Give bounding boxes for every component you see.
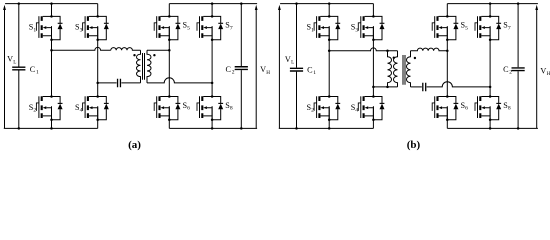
wire leg 2 upper (a) [97,4,99,17]
label S2b [307,103,315,114]
polarity dot secondary (b) [414,57,416,59]
label S3a [75,23,83,34]
label S3b [351,23,359,34]
node leg 4 rail junctions (b) [489,2,492,129]
inductor L series secondary (b) [411,48,448,51]
svg-text:4: 4 [355,108,358,114]
label S6a [183,101,191,112]
wire leg 1 lower (b) [328,106,330,128]
svg-text:(b): (b) [407,139,421,151]
wire lower primary right (a) [121,82,140,84]
label C2 (a) [226,65,235,76]
body diode of S6a [169,97,180,120]
transformer T core (a) [143,53,145,80]
svg-text:6: 6 [187,106,190,112]
capacitor C_s series (b) [423,83,426,92]
wire bottom rail left bridge (a) [4,127,98,129]
wire top rail left bridge (a) [5,3,98,5]
capacitor C1 (b) [290,2,303,129]
node leg 1 rail junctions (a) [50,2,53,129]
wire leg 2 lower (b) [372,106,374,128]
svg-text:V: V [7,55,13,64]
wire leg 1 middle (a) [50,26,53,96]
body diode of S5b [447,16,458,39]
svg-text:1: 1 [33,27,36,33]
wire lower primary (b) [373,86,397,88]
wire leg 2 middle (b) [372,26,375,96]
transistor S4b (MOSFET) [358,95,374,121]
label V_H (b) [540,66,550,77]
svg-text:C: C [226,65,232,74]
label V_L (a) [7,55,16,66]
transformer T primary winding (a) [136,50,140,83]
transistor S4a (MOSFET) [83,95,99,121]
polarity dot primary (a) [133,54,135,56]
svg-text:5: 5 [465,25,468,31]
label S8b [503,101,511,112]
svg-text:2: 2 [33,108,36,114]
body diode of S7b [490,16,501,39]
caption (a) [128,139,141,151]
svg-text:2: 2 [311,108,314,114]
wire leg 2 upper (b) [372,4,374,17]
wire secondary bottom left (b) [411,86,422,88]
transistor S1b (MOSFET) [314,15,330,41]
capacitor C2 (b) [512,2,525,129]
label S7a [225,21,233,32]
capacitor C_s series (a) [118,79,121,88]
transistor S5a (MOSFET) [154,15,170,41]
voltage arrow V_H (b) [535,5,538,129]
wire leg 3 lower (b) [446,106,448,128]
transistor S6a (MOSFET) [154,95,170,121]
wire leg 2 lower (a) [97,106,99,128]
svg-text:C: C [30,65,36,74]
svg-text:V: V [540,66,546,75]
transistor S6b (MOSFET) [432,95,448,121]
wire secondary top (a) [147,49,169,51]
svg-text:L: L [13,59,16,65]
svg-text:V: V [260,65,266,74]
wire leg 3 upper (b) [446,4,448,17]
label S8a [225,101,233,112]
wire leg 4 upper (a) [211,4,213,17]
svg-text:6: 6 [465,106,468,112]
svg-text:1: 1 [311,27,314,33]
transistor S5b (MOSFET) [432,15,448,41]
wire leg 1 upper (a) [51,4,53,17]
wire leg 1 lower (a) [51,106,53,128]
label C1 (b) [307,65,316,76]
label V_H (a) [260,65,270,76]
caption (b) [407,139,421,151]
svg-text:(a): (a) [128,139,141,151]
body diode of S4a [98,97,109,120]
transformer T secondary winding (b) [407,51,411,87]
capacitor C2 (a) [235,2,248,129]
wire leg 4 upper (b) [489,4,491,17]
transistor S3b (MOSFET) [358,15,374,41]
svg-text:L: L [291,60,294,66]
svg-text:5: 5 [187,25,190,31]
transistor S2a (MOSFET) [36,95,52,121]
label S1a [29,23,37,34]
body diode of S8a [212,97,223,120]
inductor L (a) [111,48,141,51]
label S6b [461,101,469,112]
wire leg 4 lower (b) [489,106,491,128]
label S7b [503,21,511,32]
body diode of S1b [329,16,340,39]
wire leg 3 lower (a) [168,106,170,128]
inductor Lm magnetizing (b) [386,49,391,88]
label C1 (a) [30,65,39,76]
body diode of S1a [52,16,63,39]
polarity dot secondary (a) [153,54,155,56]
wire top rail right bridge (a) [169,3,257,5]
label S5a [183,21,191,32]
wire leg 2 middle (a) [96,26,99,96]
wire secondary bottom right with crossover hop (b) [427,82,490,87]
body diode of S7a [212,16,223,39]
svg-text:3: 3 [355,27,358,33]
svg-text:V: V [285,55,291,64]
transformer T secondary winding (a) [147,50,151,83]
wire lower primary left (a) [98,82,117,84]
wire leg 1 upper (b) [328,4,330,17]
label C2 (b) [503,65,512,76]
voltage arrow V_L (b) [278,5,281,129]
label S4b [351,103,359,114]
capacitor C1 (a) [12,2,25,129]
transformer T core (b) [403,55,405,85]
wire bottom rail right bridge (b) [447,127,538,129]
transistor S8b (MOSFET) [475,95,491,121]
svg-text:C: C [307,65,313,74]
wire leg 4 lower (a) [211,106,213,128]
svg-text:1: 1 [313,70,316,76]
transistor S3a (MOSFET) [83,15,99,41]
transistor S7a (MOSFET) [197,15,213,41]
label V_L (b) [285,55,294,66]
body diode of S3b [373,16,384,39]
wire primary top with crossover hop (a) [52,47,111,50]
body diode of S3a [98,16,109,39]
polarity dot primary (b) [393,57,395,59]
body diode of S4b [373,97,384,120]
label S4a [75,103,83,114]
label S1b [307,23,315,34]
svg-text:8: 8 [230,106,233,112]
body diode of S5a [169,16,180,39]
body diode of S2a [52,97,63,120]
wire leg 4 middle (a) [211,26,214,96]
svg-text:C: C [503,65,509,74]
wire leg 3 upper (a) [168,4,170,17]
label S5b [461,21,469,32]
transistor S8a (MOSFET) [197,95,213,121]
wire leg 3 middle (a) [168,26,171,96]
wire bottom rail left bridge (b) [279,127,374,129]
svg-text:2: 2 [509,70,512,76]
voltage arrow V_H (a) [255,5,258,129]
transistor S1a (MOSFET) [36,15,52,41]
transistor S7b (MOSFET) [475,15,491,41]
wire leg 1 middle (b) [328,26,331,96]
node leg 1 rail junctions (b) [328,2,331,129]
label S2a [29,103,37,114]
svg-text:2: 2 [232,70,235,76]
body diode of S6b [447,97,458,120]
svg-text:4: 4 [80,108,83,114]
transistor S2b (MOSFET) [314,95,330,121]
svg-text:7: 7 [230,25,233,31]
wire primary top with crossover hop (b) [329,48,397,51]
wire bottom rail right bridge (a) [169,127,257,129]
svg-text:H: H [266,70,270,76]
svg-text:1: 1 [36,70,39,76]
voltage arrow V_L (a) [3,5,6,129]
body diode of S8b [490,97,501,120]
svg-text:3: 3 [80,27,83,33]
wire leg 3 middle (b) [446,26,449,96]
transformer T primary winding (b) [394,51,398,87]
svg-text:7: 7 [508,25,511,31]
body diode of S2b [329,97,340,120]
svg-text:H: H [547,71,550,77]
node leg 4 rail junctions (a) [211,2,214,129]
wire secondary bottom with crossover hop (a) [147,78,212,83]
wire leg 4 middle (b) [489,26,492,96]
wire top rail left bridge (b) [280,3,373,5]
wire top rail right bridge (b) [447,3,538,5]
svg-text:8: 8 [508,106,511,112]
